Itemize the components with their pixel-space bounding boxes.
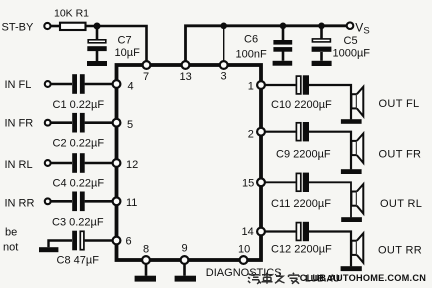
svg-text:11: 11 bbox=[126, 197, 137, 209]
svg-text:100nF: 100nF bbox=[236, 49, 267, 61]
svg-text:OUT FL: OUT FL bbox=[379, 98, 420, 110]
svg-text:10µF: 10µF bbox=[115, 47, 141, 59]
svg-text:C6: C6 bbox=[244, 34, 258, 46]
svg-text:1000µF: 1000µF bbox=[333, 48, 371, 60]
svg-text:15: 15 bbox=[242, 178, 254, 190]
svg-text:IN FL: IN FL bbox=[5, 79, 32, 91]
svg-text:C1 0.22µF: C1 0.22µF bbox=[53, 99, 105, 111]
svg-text:not: not bbox=[3, 242, 18, 254]
svg-text:12: 12 bbox=[126, 159, 138, 171]
svg-text:2: 2 bbox=[248, 128, 254, 140]
svg-text:be: be bbox=[5, 227, 17, 239]
svg-text:C7: C7 bbox=[118, 35, 132, 47]
svg-text:1: 1 bbox=[248, 80, 254, 92]
svg-text:C11 2200µF: C11 2200µF bbox=[271, 198, 331, 210]
svg-text:14: 14 bbox=[242, 226, 254, 238]
svg-text:4: 4 bbox=[128, 80, 134, 92]
svg-text:OUT RR: OUT RR bbox=[378, 244, 422, 256]
svg-text:6: 6 bbox=[126, 235, 132, 247]
svg-text:OUT FR: OUT FR bbox=[379, 149, 422, 161]
svg-text:10: 10 bbox=[238, 243, 250, 255]
svg-text:IN RR: IN RR bbox=[5, 197, 35, 209]
svg-text:C2 0.22µF: C2 0.22µF bbox=[53, 138, 105, 150]
svg-text:5: 5 bbox=[127, 119, 133, 131]
svg-text:C3 0.22µF: C3 0.22µF bbox=[52, 217, 104, 229]
svg-text:C9 2200µF: C9 2200µF bbox=[276, 149, 331, 161]
svg-text:10K R1: 10K R1 bbox=[54, 8, 89, 20]
svg-text:C12 2200µF: C12 2200µF bbox=[271, 244, 332, 256]
svg-text:CLUB.AUTOHOME.COM.CN: CLUB.AUTOHOME.COM.CN bbox=[300, 273, 426, 283]
svg-text:ST-BY: ST-BY bbox=[2, 21, 34, 33]
svg-text:V: V bbox=[355, 20, 363, 34]
svg-text:9: 9 bbox=[182, 242, 188, 254]
svg-text:8: 8 bbox=[143, 243, 149, 255]
svg-text:13: 13 bbox=[180, 71, 192, 83]
svg-text:C5: C5 bbox=[344, 35, 358, 47]
svg-text:IN FR: IN FR bbox=[5, 118, 34, 130]
svg-text:C10 2200µF: C10 2200µF bbox=[271, 99, 332, 111]
svg-text:7: 7 bbox=[143, 71, 149, 83]
svg-text:OUT RL: OUT RL bbox=[380, 198, 422, 210]
svg-text:S: S bbox=[363, 26, 369, 37]
svg-text:3: 3 bbox=[221, 71, 227, 83]
svg-text:IN RL: IN RL bbox=[5, 159, 33, 171]
svg-text:C8 47µF: C8 47µF bbox=[57, 255, 100, 267]
svg-text:C4 0.22µF: C4 0.22µF bbox=[53, 178, 105, 190]
